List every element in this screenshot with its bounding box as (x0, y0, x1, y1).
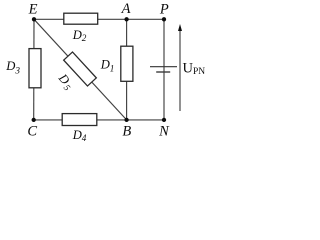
resistor D1 (121, 46, 133, 81)
wire middle rail A-B (126, 19, 128, 120)
arrow U_PN (178, 24, 182, 111)
wire left rail E-C (33, 19, 35, 120)
svg-text:N: N (158, 123, 170, 139)
svg-text:B: B (122, 123, 131, 139)
node E (32, 17, 36, 21)
battery cell (150, 67, 177, 72)
node P (162, 17, 166, 21)
node C (32, 118, 36, 122)
svg-text:A: A (121, 1, 131, 17)
svg-text:C: C (27, 123, 37, 139)
node N (162, 118, 166, 122)
wire diagonal E-B (34, 19, 127, 120)
resistor D2 (64, 13, 98, 24)
svg-text:E: E (28, 2, 38, 18)
short plate (156, 71, 170, 73)
node B (124, 118, 128, 122)
label D5 (55, 70, 72, 87)
resistor D3 (29, 49, 41, 88)
wire bottom C-B-N (34, 119, 165, 121)
resistor D4 (62, 114, 97, 126)
long plate (150, 66, 177, 68)
resistor D5 (64, 52, 97, 86)
node A (124, 17, 128, 21)
wire top E-A-P (34, 18, 164, 20)
wire right rail P-N (163, 19, 165, 120)
svg-text:P: P (159, 1, 169, 17)
